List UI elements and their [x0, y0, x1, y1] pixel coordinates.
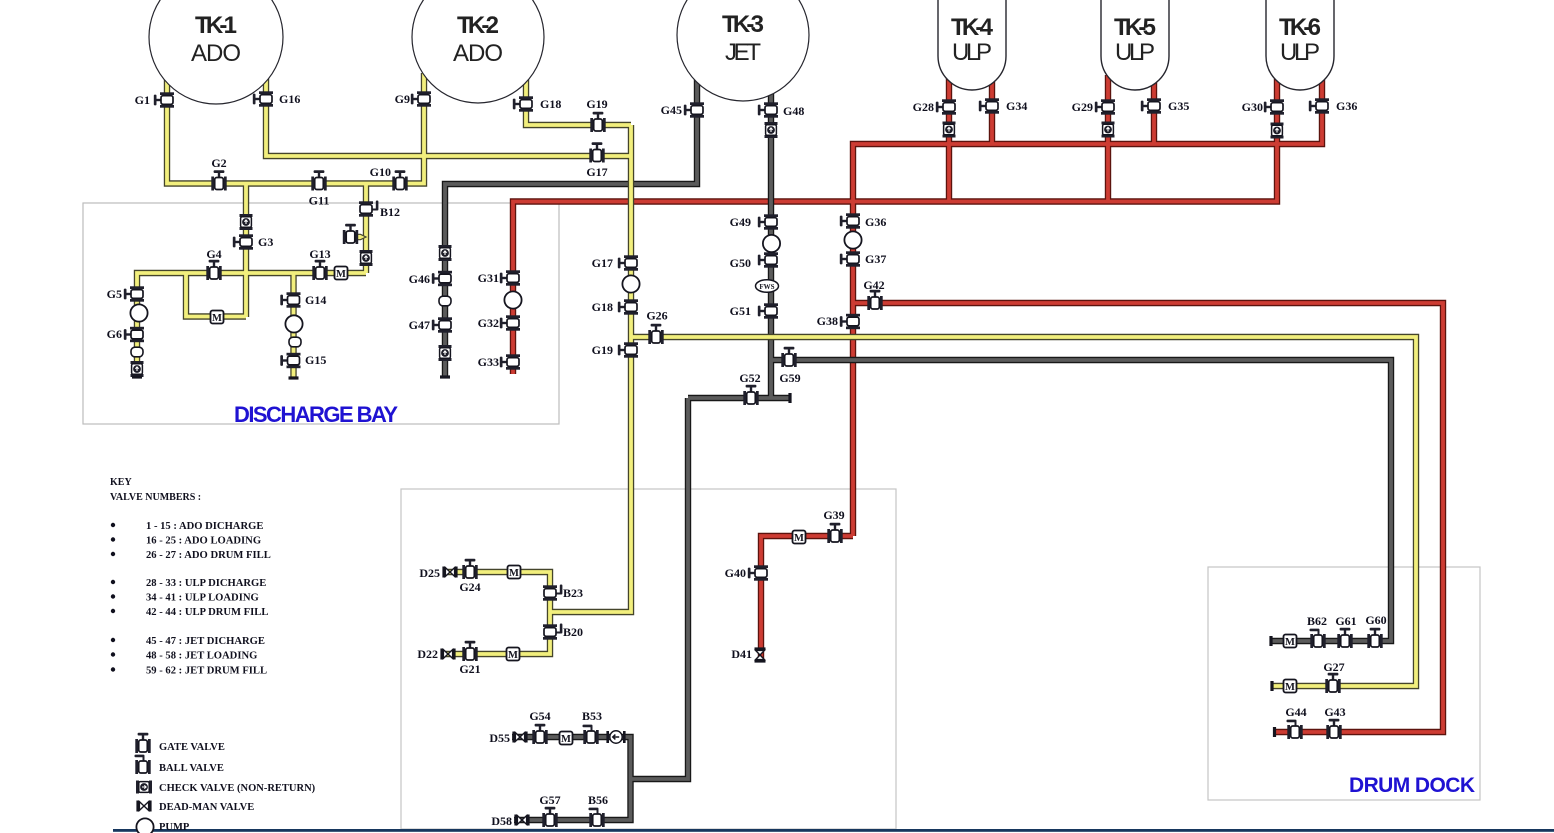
- svg-text:TK-2: TK-2: [457, 12, 499, 39]
- svg-text:DEAD-MAN VALVE: DEAD-MAN VALVE: [159, 802, 254, 813]
- gate valve G24: [462, 559, 477, 579]
- gate valve G4: [206, 260, 221, 280]
- check valve in B12 column: [360, 250, 373, 266]
- end cap ULP drum dock: [1273, 727, 1276, 737]
- pump in G14 column: [285, 315, 302, 332]
- gate valve G61: [1337, 628, 1352, 648]
- JET gray pipe fills: [445, 78, 1391, 820]
- ball valve B56: [589, 808, 605, 827]
- dead-man valve D25: [442, 567, 457, 578]
- svg-text:ADO: ADO: [191, 40, 241, 67]
- gate valve G29: [1095, 99, 1115, 114]
- tank TK-4: [938, 0, 1006, 90]
- check valve below G47: [439, 345, 452, 361]
- gate valve G10: [392, 170, 407, 190]
- gate valve G36: [1309, 98, 1329, 113]
- gate valve G36: [840, 213, 860, 228]
- ADO yellow pipe fills: [137, 73, 1416, 686]
- key pump symbol: [136, 818, 153, 833]
- check valve below G30: [1271, 123, 1284, 139]
- svg-text:G21: G21: [459, 662, 480, 676]
- key list: [111, 523, 115, 527]
- gate valve G37: [840, 251, 860, 266]
- tank TK-6: [1266, 0, 1334, 90]
- svg-text:G34: G34: [1006, 99, 1027, 113]
- svg-text:G18: G18: [540, 97, 561, 111]
- gate valve G34: [979, 98, 999, 113]
- gate valve G18: [618, 299, 638, 314]
- svg-text:45 - 47 : JET DICHARGE: 45 - 47 : JET DICHARGE: [146, 636, 265, 647]
- svg-text:1 - 15 : ADO DICHARGE: 1 - 15 : ADO DICHARGE: [146, 521, 263, 532]
- end cap ADO drum dock: [1270, 681, 1273, 691]
- svg-text:16 - 25 : ADO LOADING: 16 - 25 : ADO LOADING: [146, 536, 261, 547]
- svg-text:DRUM DOCK: DRUM DOCK: [1349, 774, 1475, 797]
- pump in JET loading column: [763, 235, 780, 252]
- gate valve G51: [758, 303, 778, 318]
- svg-text:PUMP: PUMP: [159, 822, 190, 833]
- key dead-man valve symbol: [136, 801, 151, 812]
- svg-text:TK-3: TK-3: [722, 11, 764, 38]
- svg-text:G42: G42: [863, 278, 884, 292]
- gate valve G39: [827, 523, 842, 543]
- svg-text:G52: G52: [739, 371, 760, 385]
- tank TK-3: [677, 0, 809, 101]
- svg-text:G17: G17: [586, 165, 607, 179]
- svg-text:B53: B53: [582, 709, 602, 723]
- dead-man valve D41: [755, 647, 766, 662]
- strainer in G46 column: [439, 296, 451, 306]
- svg-text:48 - 58 : JET LOADING: 48 - 58 : JET LOADING: [146, 651, 257, 662]
- gate valve G46: [432, 271, 452, 286]
- meter M near G24: [508, 566, 521, 580]
- gate valve G50: [758, 252, 778, 267]
- svg-text:D41: D41: [731, 647, 752, 661]
- svg-text:G13: G13: [309, 247, 330, 261]
- svg-text:DISCHARGE BAY: DISCHARGE BAY: [234, 402, 398, 427]
- tank TK-5: [1101, 0, 1169, 90]
- svg-text:G45: G45: [661, 103, 682, 117]
- gate valve G2: [211, 170, 226, 190]
- svg-text:G30: G30: [1242, 100, 1263, 114]
- end cap JET drum dock: [1269, 636, 1272, 646]
- svg-text:TK-6: TK-6: [1279, 14, 1321, 41]
- svg-text:G54: G54: [529, 709, 550, 723]
- svg-text:G49: G49: [730, 215, 751, 229]
- svg-text:ULP: ULP: [952, 39, 992, 66]
- gate valve G38: [840, 314, 860, 329]
- svg-text:59 - 62 : JET DRUM FILL: 59 - 62 : JET DRUM FILL: [146, 666, 267, 677]
- svg-text:G44: G44: [1285, 705, 1306, 719]
- gate valve G47: [432, 317, 452, 332]
- svg-text:B62: B62: [1307, 614, 1327, 628]
- svg-text:B12: B12: [380, 205, 400, 219]
- ULP red pipe outlines: [513, 75, 1443, 732]
- svg-text:CHECK VALVE (NON-RETURN): CHECK VALVE (NON-RETURN): [159, 783, 316, 794]
- svg-text:G3: G3: [258, 235, 273, 249]
- gate valve G31: [500, 270, 520, 285]
- svg-text:G1: G1: [135, 93, 150, 107]
- gate valve G33: [500, 354, 520, 369]
- svg-text:G60: G60: [1365, 613, 1386, 627]
- svg-text:G46: G46: [409, 272, 430, 286]
- pump in ADO loading column: [622, 275, 639, 292]
- key box: [401, 489, 896, 829]
- svg-text:G6: G6: [107, 327, 122, 341]
- key gate valve symbol: [135, 733, 150, 753]
- svg-text:G17: G17: [592, 256, 613, 270]
- svg-text:D25: D25: [419, 566, 440, 580]
- svg-text:G28: G28: [913, 100, 934, 114]
- gate valve G14: [280, 292, 300, 307]
- svg-text:G29: G29: [1072, 100, 1093, 114]
- gate valve G18: [513, 96, 533, 111]
- ball valve G44: [1287, 720, 1303, 739]
- tank TK-2: [412, 0, 544, 103]
- gate valve G49: [758, 214, 778, 229]
- gate valve G16: [253, 91, 273, 106]
- pump in G31 column: [504, 291, 521, 308]
- svg-text:G9: G9: [395, 92, 410, 106]
- svg-text:G36: G36: [865, 215, 886, 229]
- svg-text:TK-4: TK-4: [951, 14, 994, 41]
- gate valve G1: [154, 92, 174, 107]
- svg-text:FWS: FWS: [759, 283, 774, 291]
- meter M drum dock JET: [1284, 635, 1297, 649]
- svg-text:D58: D58: [491, 814, 512, 828]
- gate valve G59: [781, 347, 796, 367]
- gate valve G52: [743, 385, 758, 405]
- svg-text:G27: G27: [1323, 660, 1344, 674]
- gate valve G40: [748, 565, 768, 580]
- svg-text:D22: D22: [417, 647, 438, 661]
- svg-text:D55: D55: [489, 731, 510, 745]
- gate valve G6: [124, 327, 144, 342]
- gate valve G19: [618, 342, 638, 357]
- gate valve G21: [462, 641, 477, 661]
- svg-text:G2: G2: [211, 156, 226, 170]
- svg-text:G19: G19: [592, 343, 613, 357]
- end cap G46 column: [440, 375, 450, 378]
- svg-text:G4: G4: [206, 247, 221, 261]
- svg-text:JET: JET: [725, 39, 761, 66]
- check valve above G46: [439, 245, 452, 261]
- meter M near G21: [507, 648, 520, 662]
- drum dock box: [1208, 567, 1480, 800]
- discharge bay box: [83, 203, 559, 424]
- gate valve G30: [1264, 99, 1284, 114]
- gate valve G19: [590, 112, 605, 132]
- check valve below G48: [765, 122, 778, 138]
- gate valve G54: [532, 724, 547, 744]
- drain valve with arrow near B12: [343, 224, 366, 244]
- gate valve G35: [1141, 98, 1161, 113]
- gate valve G17: [618, 255, 638, 270]
- gate valve G15: [280, 353, 300, 368]
- JET gray pipe outlines: [445, 78, 1391, 820]
- svg-text:34 - 41 : ULP LOADING: 34 - 41 : ULP LOADING: [146, 593, 259, 604]
- svg-text:G39: G39: [823, 508, 844, 522]
- non-return circle valve on JET drum fill: [606, 731, 625, 743]
- svg-text:ULP: ULP: [1115, 39, 1155, 66]
- ball valve B62: [1310, 629, 1326, 648]
- svg-text:G33: G33: [478, 355, 499, 369]
- svg-text:G47: G47: [409, 318, 430, 332]
- svg-text:G35: G35: [1168, 99, 1189, 113]
- check valve above G3: [240, 214, 253, 230]
- svg-text:G26: G26: [646, 309, 667, 323]
- gate valve G26: [648, 324, 663, 344]
- ADO yellow pipe outlines: [137, 73, 1416, 686]
- svg-text:G50: G50: [730, 256, 751, 270]
- svg-text:G57: G57: [539, 793, 560, 807]
- svg-text:G18: G18: [592, 300, 613, 314]
- gate valve G28: [936, 99, 956, 114]
- svg-text:G59: G59: [779, 371, 800, 385]
- svg-text:G10: G10: [370, 165, 391, 179]
- gate valve G11: [311, 170, 326, 190]
- gate valve G57: [542, 807, 557, 827]
- svg-text:ULP: ULP: [1280, 39, 1320, 66]
- svg-text:B20: B20: [563, 625, 583, 639]
- svg-text:BALL VALVE: BALL VALVE: [159, 763, 224, 774]
- svg-text:28 - 33 : ULP DICHARGE: 28 - 33 : ULP DICHARGE: [146, 578, 266, 589]
- svg-text:G31: G31: [478, 271, 499, 285]
- svg-text:G36: G36: [1336, 99, 1357, 113]
- svg-text:VALVE NUMBERS :: VALVE NUMBERS :: [110, 492, 201, 503]
- check valve below G28: [943, 122, 956, 138]
- gate valve G5: [124, 286, 144, 301]
- key ball valve symbol: [135, 755, 151, 774]
- ball valve B53: [583, 725, 599, 744]
- svg-text:TK-5: TK-5: [1114, 14, 1156, 41]
- svg-text:KEY: KEY: [110, 477, 132, 488]
- key check valve symbol: [136, 781, 152, 794]
- svg-text:G24: G24: [459, 580, 480, 594]
- meter M near G54: [560, 732, 573, 746]
- strainer in G14 column: [289, 337, 301, 347]
- ball valve B12: [359, 201, 378, 217]
- svg-text:G61: G61: [1335, 614, 1356, 628]
- svg-text:G15: G15: [305, 353, 326, 367]
- svg-text:G43: G43: [1324, 705, 1345, 719]
- svg-text:G32: G32: [478, 316, 499, 330]
- dead-man valve D22: [440, 649, 455, 660]
- gate valve G43: [1326, 719, 1341, 739]
- gate valve G48: [758, 102, 778, 117]
- gate valve G13: [312, 260, 327, 280]
- gate valve G42: [867, 290, 882, 310]
- svg-text:TK-1: TK-1: [195, 12, 237, 39]
- svg-text:G40: G40: [725, 566, 746, 580]
- meter M near G13: [335, 267, 348, 281]
- svg-text:G38: G38: [817, 314, 838, 328]
- end cap G52 stub: [788, 393, 791, 403]
- svg-text:G5: G5: [107, 287, 122, 301]
- svg-text:G11: G11: [309, 194, 330, 208]
- end cap G14 column: [289, 376, 299, 379]
- meter M near G39: [793, 531, 806, 545]
- check valve below G6: [131, 361, 144, 377]
- svg-text:G37: G37: [865, 252, 886, 266]
- svg-text:G14: G14: [305, 293, 326, 307]
- tank TK-1: [149, 0, 283, 104]
- gate valve G32: [500, 315, 520, 330]
- check valve below G29: [1102, 122, 1115, 138]
- gate valve G60: [1367, 628, 1382, 648]
- gate valve G3: [233, 234, 253, 249]
- svg-text:B56: B56: [588, 793, 608, 807]
- svg-text:G16: G16: [279, 92, 300, 106]
- svg-text:26 - 27 : ADO DRUM FILL: 26 - 27 : ADO DRUM FILL: [146, 550, 271, 561]
- svg-text:G19: G19: [586, 97, 607, 111]
- svg-text:ADO: ADO: [453, 40, 503, 67]
- dead-man valve D58: [514, 815, 529, 826]
- svg-text:GATE VALVE: GATE VALVE: [159, 742, 225, 753]
- ULP red pipe fills: [513, 75, 1443, 732]
- ball valve B23: [543, 585, 562, 601]
- svg-text:G48: G48: [783, 104, 804, 118]
- gate valve G9: [411, 91, 431, 106]
- gate valve G45: [684, 102, 704, 117]
- svg-text:42 - 44 : ULP DRUM FILL: 42 - 44 : ULP DRUM FILL: [146, 607, 268, 618]
- pump in ULP loading column: [844, 231, 861, 248]
- ball valve B20: [543, 624, 562, 640]
- gate valve G17: [589, 142, 604, 162]
- strainer in G5 column: [131, 347, 143, 357]
- FWS instrument oval: [756, 280, 779, 293]
- svg-text:G51: G51: [730, 304, 751, 318]
- meter M drum dock ADO: [1284, 680, 1297, 694]
- end cap G5 column: [132, 375, 142, 378]
- bottom frame line: [113, 829, 1554, 832]
- meter M in bypass loop: [211, 311, 224, 325]
- pump in G5 column: [130, 304, 147, 321]
- dead-man valve D55: [512, 732, 527, 743]
- svg-text:B23: B23: [563, 586, 583, 600]
- gate valve G27: [1325, 673, 1340, 693]
